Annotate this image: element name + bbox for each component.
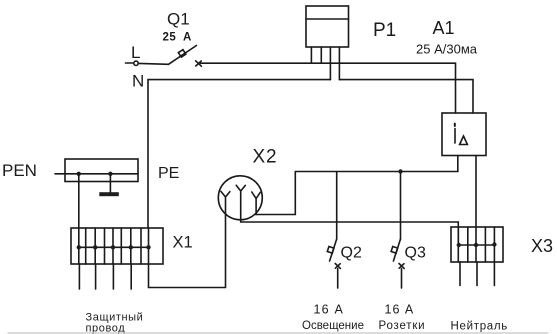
- breaker Q3: [391, 239, 404, 288]
- wire X2 PE to X1: [149, 214, 226, 288]
- svg-text:25 А: 25 А: [163, 32, 192, 44]
- wire Q2 tap: [336, 172, 338, 240]
- terminal L: [126, 61, 139, 65]
- wire L lead: [139, 62, 169, 65]
- svg-text:Освещение: Освещение: [302, 320, 364, 332]
- wires below X1: [79, 264, 131, 289]
- breaker Q1: [169, 46, 202, 67]
- meter P1: [306, 6, 349, 80]
- RCD A1: [442, 113, 486, 156]
- svg-text:Розетки: Розетки: [379, 320, 426, 332]
- connector X2: [218, 176, 262, 220]
- svg-text:провод: провод: [86, 323, 126, 334]
- svg-text:X3: X3: [531, 236, 553, 256]
- wire X2 neutral to X3: [241, 220, 459, 247]
- svg-text:N: N: [132, 72, 144, 91]
- svg-text:16 А: 16 А: [314, 303, 345, 317]
- junction dot Q3 tap: [398, 169, 402, 173]
- wires below X3: [460, 262, 494, 286]
- wire PEN to X1: [78, 174, 80, 228]
- terminal block X1: [71, 228, 163, 264]
- wire A1 L out: [295, 156, 458, 172]
- svg-text:X1: X1: [173, 234, 193, 252]
- bus bar PEN: [55, 159, 138, 182]
- svg-text:25 А/30ма: 25 А/30ма: [416, 42, 478, 57]
- terminal block X3: [451, 227, 503, 262]
- wire L to X2: [256, 172, 295, 215]
- svg-text:Q3: Q3: [405, 245, 426, 262]
- svg-text:А1: А1: [433, 18, 455, 38]
- scan artifact line: [8, 332, 548, 334]
- ground: [99, 174, 119, 196]
- wire N meter out to A1: [339, 80, 473, 113]
- svg-text:16 А: 16 А: [385, 303, 415, 317]
- wire A1 N out: [475, 156, 477, 228]
- svg-text:Нейтраль: Нейтраль: [451, 321, 509, 333]
- node N: [148, 80, 330, 228]
- wire Q3 tap: [400, 172, 402, 240]
- breaker Q2: [327, 239, 340, 288]
- svg-text:PE: PE: [158, 165, 179, 182]
- svg-text:X2: X2: [253, 147, 278, 168]
- svg-text:P1: P1: [373, 20, 396, 41]
- svg-text:Q2: Q2: [341, 245, 362, 262]
- svg-text:L: L: [131, 43, 140, 62]
- svg-text:PEN: PEN: [2, 161, 37, 180]
- wire L to A1: [201, 63, 456, 113]
- svg-text:Q1: Q1: [167, 10, 190, 29]
